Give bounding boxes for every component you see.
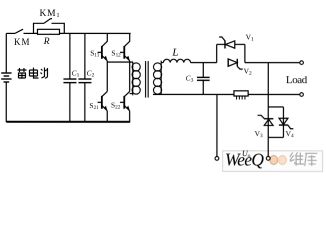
wire L to V-section [191,62,217,64]
svg-text:L: L [171,46,178,58]
wire left leg to primary top [107,61,133,63]
output branch right (from top rail through V3/V4) [267,63,269,157]
svg-text:Load: Load [286,74,308,86]
thyristor bypass loop sides [217,44,245,62]
label 蓄电池 (hand-drawn glyph strokes) [17,68,47,79]
output branch left [216,95,218,157]
IGBT S21 [98,91,108,121]
transformer primary winding [132,62,140,95]
capacitor C2 [78,33,91,122]
bottom DC rail [6,121,130,123]
precharge bypass loop with contact KM1 [33,19,64,34]
svg-text:R: R [43,37,50,47]
resistor R [33,29,64,34]
transformer secondary winding [153,61,161,95]
IGBT S11 [98,33,108,61]
top DC rail [64,32,130,34]
load terminal bottom [300,93,304,97]
IGBT S12 [120,33,130,61]
thyristor V2 [228,59,243,69]
saturable reactor / filter block [234,91,248,100]
watermark 维 [290,152,304,165]
anti-parallel pair bridges [268,107,283,138]
output terminal left [215,157,219,161]
battery GB 蓄电池 [1,33,11,122]
output terminal right [266,156,270,160]
contactor switch KM [6,29,33,33]
thyristor V1 [219,37,235,49]
svg-text:KM: KM [14,37,31,47]
watermark box [223,150,323,172]
wire V-section to load terminal [245,62,300,64]
inductor L [161,59,190,62]
right leg mid wire [129,61,131,92]
secondary bottom wire [153,93,300,95]
capacitor C1 [63,33,76,122]
thyristor V3 [258,115,274,125]
transformer core [146,61,149,98]
thyristor V4 [279,118,293,129]
capacitor C3 [197,63,210,95]
left leg mid wire [106,61,108,92]
watermark 库 [305,153,318,166]
wire right leg to primary bottom [130,93,134,95]
IGBT S22 [120,91,130,121]
load terminal top [300,61,304,65]
